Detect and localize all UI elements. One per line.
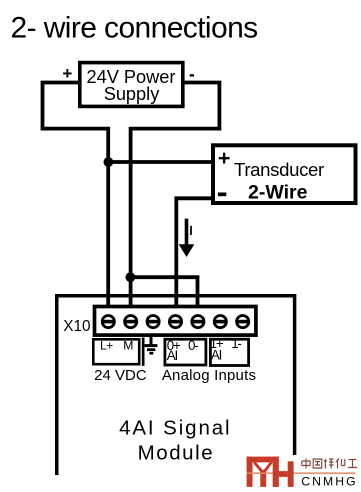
terminal 6 1+ xyxy=(214,316,226,328)
terminal 5 0- xyxy=(192,316,204,328)
terminal 1 L+ xyxy=(102,316,114,328)
svg-text:1-: 1- xyxy=(231,336,241,351)
ground symbol xyxy=(142,334,158,366)
logo CNMHG mark xyxy=(247,457,356,487)
label box 0+ 0- AI xyxy=(165,338,206,365)
svg-text:L+: L+ xyxy=(100,338,113,352)
svg-text:Supply: Supply xyxy=(104,84,161,104)
terminal 2 M xyxy=(125,316,137,328)
logo stripe xyxy=(247,472,356,474)
module box (open bottom) xyxy=(57,296,295,475)
terminal block X10 xyxy=(95,307,256,336)
svg-text:X10: X10 xyxy=(63,318,90,335)
svg-text:+: + xyxy=(218,146,231,170)
svg-text:CNMHG: CNMHG xyxy=(301,475,358,489)
terminal 3 ground xyxy=(147,316,159,328)
svg-text:2-Wire: 2-Wire xyxy=(248,182,308,204)
label - power supply xyxy=(190,74,194,76)
wire 24V- to M terminal xyxy=(131,83,220,319)
svg-text:Module: Module xyxy=(138,442,215,465)
svg-text:+: + xyxy=(62,64,72,83)
logo H xyxy=(273,457,279,487)
power supply box xyxy=(80,63,183,107)
label - transducer xyxy=(218,193,226,197)
node A junction dot xyxy=(104,157,114,167)
wire 24V+ to L+ terminal xyxy=(43,83,109,319)
current arrow I xyxy=(185,219,189,246)
svg-text:Transducer: Transducer xyxy=(234,159,324,180)
svg-text:4AI Signal: 4AI Signal xyxy=(119,417,231,440)
wire M jumper to 0- terminal xyxy=(130,277,197,318)
label box 1+ 1- AI xyxy=(210,336,249,365)
logo Chinese text 中国煤化工 xyxy=(302,459,357,469)
svg-text:24 VDC: 24 VDC xyxy=(94,367,147,384)
terminal 7 1- xyxy=(237,316,249,328)
svg-text:0-: 0- xyxy=(188,338,198,353)
svg-text:AI: AI xyxy=(211,348,222,363)
wire node A to transducer + xyxy=(108,160,213,164)
wire transducer - to 0+ terminal xyxy=(176,198,213,318)
svg-text:M: M xyxy=(123,338,133,352)
label box L+ M xyxy=(93,338,139,364)
svg-text:Analog Inputs: Analog Inputs xyxy=(162,367,256,384)
svg-text:2- wire connections: 2- wire connections xyxy=(11,11,258,44)
terminal 4 0+ xyxy=(169,316,181,328)
node B junction dot xyxy=(125,272,135,282)
svg-text:AI: AI xyxy=(167,348,178,363)
transducer box xyxy=(213,145,356,203)
